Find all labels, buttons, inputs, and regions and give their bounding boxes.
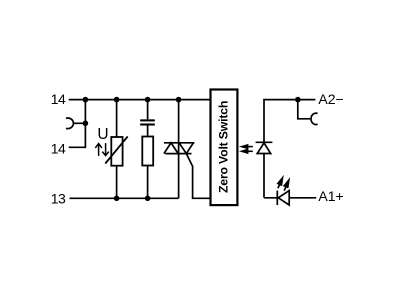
wire jumper branch from node to lower terminal 14	[69, 100, 86, 148]
junction node top rail varistor branch	[114, 97, 120, 103]
light arrow indicator upper	[278, 178, 283, 189]
varistor voltage arrow down	[102, 143, 109, 156]
light arrow indicator lower	[284, 180, 289, 191]
junction node jumper contact	[83, 121, 89, 127]
varistor voltage arrow up	[95, 144, 102, 156]
svg-text:U: U	[97, 126, 108, 143]
capacitor C1 top plate	[140, 119, 155, 121]
triac Q1 lower bar	[165, 153, 191, 155]
wire stub from node A2 to plug-in contact	[298, 100, 310, 119]
wire capacitor to resistor	[147, 126, 149, 137]
svg-text:14: 14	[51, 91, 66, 107]
plug-in contact arc left	[66, 118, 73, 129]
wire triac gate to Zero Volt Switch box	[186, 154, 210, 199]
triac Q1 upper bar	[164, 142, 195, 144]
wire varistor branch bottom	[116, 166, 118, 199]
indicator LED D2 triangle	[278, 191, 289, 205]
wire bottom right to terminal A1	[264, 197, 316, 199]
svg-text:A2−: A2−	[318, 91, 343, 107]
wire top rail from terminal 14 to Zero Volt Switch box	[69, 99, 211, 101]
junction node A2 contact branch	[295, 97, 301, 103]
varistor RV1 body	[111, 137, 122, 166]
plug-in contact arc right	[311, 113, 318, 124]
opto LED D1 cathode bar	[256, 141, 273, 143]
wire resistor to bottom rail	[147, 166, 149, 199]
junction node bottom rail varistor branch	[114, 196, 120, 202]
capacitor C1 bottom plate	[140, 123, 155, 125]
triac Q1 right triangle	[179, 143, 193, 154]
wire capacitor branch top	[147, 100, 149, 120]
svg-text:13: 13	[51, 190, 66, 206]
wire triac vertical through branch	[178, 100, 180, 199]
wire varistor branch top	[116, 100, 118, 137]
svg-text:A1+: A1+	[318, 188, 343, 204]
wire stub to plug-in contact	[73, 122, 85, 124]
indicator LED D2 cathode bar	[276, 191, 278, 205]
svg-text:14: 14	[51, 140, 66, 156]
light arrow opto lower	[242, 150, 253, 153]
junction node bottom rail resistor branch	[145, 196, 151, 202]
junction node top rail capacitor branch	[145, 97, 151, 103]
varistor RV1 diagonal stroke	[105, 137, 127, 164]
light arrow opto upper	[242, 145, 253, 148]
junction node top rail triac branch	[176, 97, 182, 103]
op-amp style block U1 Zero Volt Switch box	[211, 90, 238, 206]
triac Q1 left triangle	[164, 143, 178, 154]
junction node top rail jumper branch	[83, 97, 89, 103]
resistor R1 body	[142, 137, 153, 166]
wire right rail to terminal A2	[264, 100, 315, 198]
svg-text:Zero Volt Switch: Zero Volt Switch	[216, 101, 230, 193]
wire bottom rail from terminal 13 to triac	[70, 197, 179, 199]
opto LED D1 triangle	[257, 143, 271, 154]
